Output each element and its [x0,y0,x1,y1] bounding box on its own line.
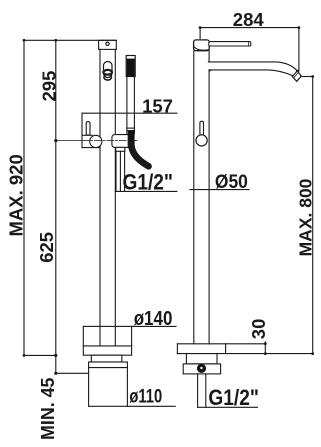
hand shower head [126,56,135,77]
svg-text:30: 30 [248,319,269,340]
valve body left [90,135,102,147]
cap left view [99,40,117,49]
wire o110 underline [127,405,175,407]
wire O50 leader line [190,189,249,191]
svg-text:ø140: ø140 [134,307,173,330]
shower hose [128,131,135,147]
wire top extension line left view [24,39,116,41]
inlet fitting below holder [116,147,125,151]
svg-text:284: 284 [233,9,265,30]
wire 284 right extension [298,28,300,71]
svg-text:G1/2": G1/2" [208,385,259,410]
connection nut right view [197,364,205,372]
spout right view [208,62,297,71]
svg-text:295: 295 [38,71,59,102]
wire MIN45 lower extension line [56,372,89,374]
diverter knob left view [104,62,113,78]
cartridge cap right view [194,40,210,51]
wire MAX800 top extension [301,76,313,78]
wire joint and 157 dimension line [82,112,177,114]
base cylinder o110 [89,362,128,406]
node 284 junction dots [199,26,301,78]
node 30 junction dots [264,342,267,355]
wire 295/625 dimension line vertical [55,40,57,373]
wire MAX800 dimension line [312,77,314,354]
svg-text:Ø50: Ø50 [215,172,248,193]
svg-text:MIN. 45: MIN. 45 [37,378,58,441]
base neck left view [91,355,122,362]
spout root joint shade [209,70,212,72]
shower holder valve body [112,135,128,148]
wire MAX920 dimension line vertical [23,40,25,355]
wire floor extension line left [24,354,56,356]
wire 284 left extension [199,28,201,39]
wire holder centerline (left part) [56,140,82,142]
lever handle right view [209,42,251,46]
svg-text:MAX. 920: MAX. 920 [6,154,27,236]
column left view [99,49,101,346]
wire o140 underline [132,325,176,327]
mixer housing left of column [81,113,83,147]
hand shower handle [126,77,128,129]
base flange left view [83,326,131,355]
base flange right view [177,343,265,345]
svg-text:625: 625 [36,232,57,263]
inlet pipe right view [197,374,199,407]
node MAX800 junction dots [311,75,314,355]
base middle tier right view [186,354,217,364]
column right view [193,51,195,344]
wire G1/2 underline left [115,190,177,192]
wire 284 dimension line [200,27,299,29]
svg-text:MAX. 800: MAX. 800 [295,178,315,256]
diverter knob right view [200,121,204,135]
wire G1/2 underline right [198,406,258,408]
svg-text:157: 157 [142,95,173,116]
base bottom plate right view [183,364,220,374]
hand shower handle end band [127,127,134,129]
svg-text:G1/2": G1/2" [123,170,174,195]
wire 30 dimension line [264,342,266,354]
svg-text:ø110: ø110 [129,387,162,408]
node junction dots left dims [23,39,58,375]
spout nozzle [292,71,301,81]
inlet pipe left view [115,151,117,191]
wire holder centerline across valves [82,140,137,142]
temperature lever left view [86,122,90,136]
